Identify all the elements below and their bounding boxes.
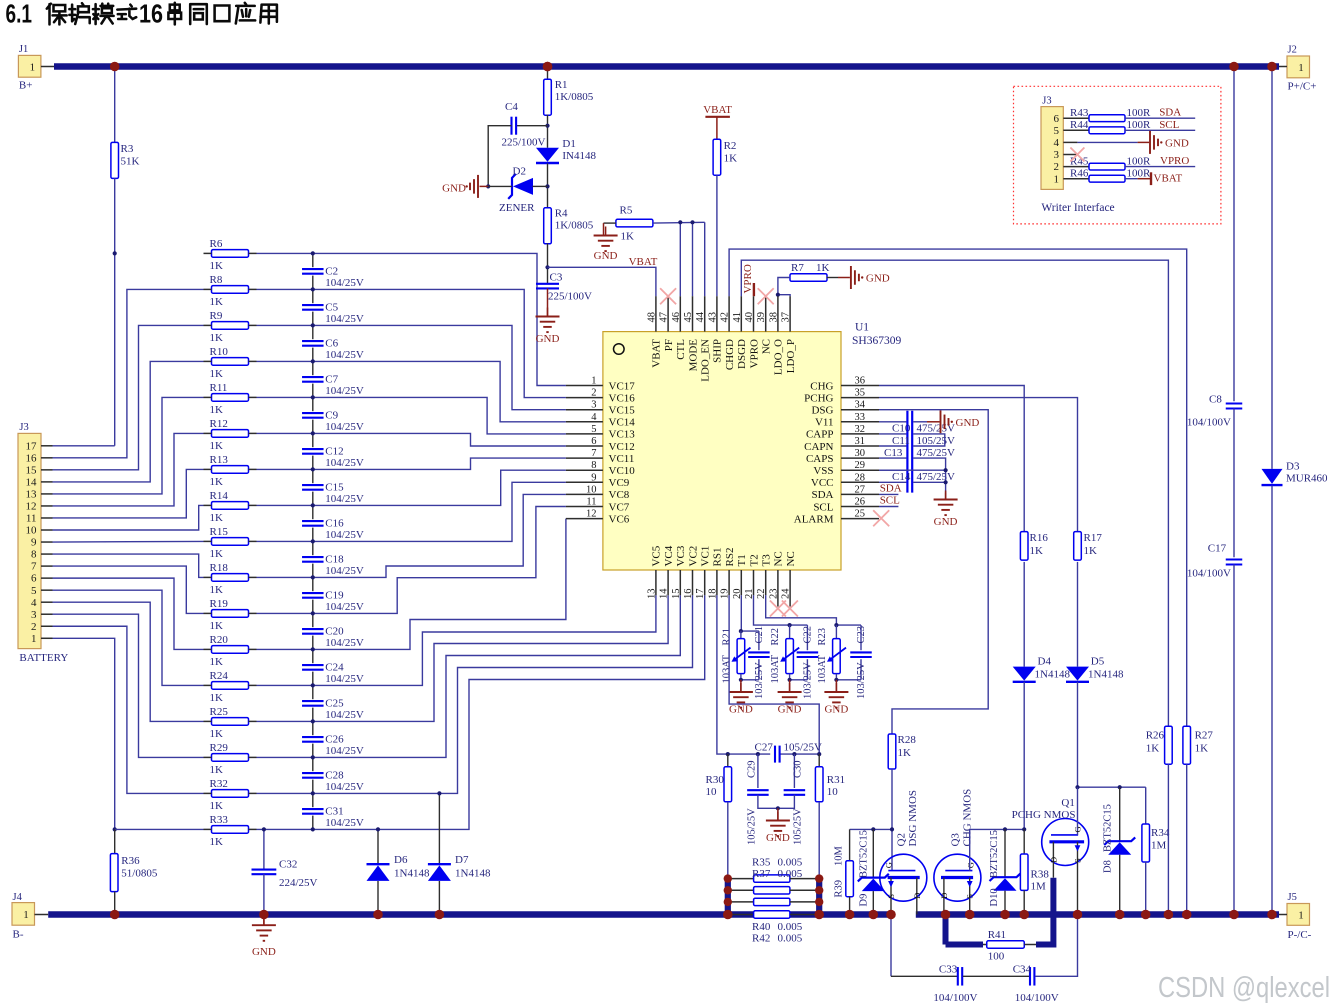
- wire J3 pin 6 stub: [41, 577, 53, 579]
- svg-text:C21: C21: [754, 626, 765, 644]
- svg-text:14: 14: [659, 588, 670, 599]
- capacitor C33 104/100V: [891, 975, 957, 977]
- wire R25 to IC: [257, 595, 669, 721]
- svg-text:C27: C27: [755, 742, 774, 754]
- svg-text:GND: GND: [934, 516, 958, 528]
- wire cap column vertical: [312, 253, 314, 829]
- pin 18 RS1 stub: [716, 570, 718, 595]
- svg-text:T2: T2: [748, 554, 760, 566]
- svg-text:103AT: 103AT: [721, 654, 732, 683]
- wire R9 to IC: [257, 325, 566, 409]
- junction sense bar left: [724, 898, 732, 906]
- svg-text:SCL: SCL: [813, 501, 833, 513]
- pin 47 PF stub: [667, 296, 669, 331]
- pin 21 T2 stub: [753, 570, 755, 595]
- svg-text:GND: GND: [252, 946, 276, 958]
- capacitor C26 104/25V: [301, 735, 324, 743]
- resistor R17 1K: [1074, 532, 1082, 561]
- svg-text:103AT: 103AT: [770, 654, 781, 683]
- capacitor C5 104/25V: [301, 303, 324, 311]
- junction cap column row R13: [311, 467, 315, 471]
- svg-text:48: 48: [646, 312, 657, 323]
- svg-text:104/25V: 104/25V: [325, 601, 364, 613]
- resistor R4 1K/0805: [544, 208, 552, 244]
- svg-text:R40: R40: [752, 921, 771, 933]
- svg-text:PF: PF: [663, 339, 675, 351]
- junction node row1: [113, 251, 117, 255]
- junction cap column row R8: [311, 287, 315, 291]
- svg-text:100R: 100R: [1127, 119, 1152, 131]
- wire bold R41 to Q1 drain: [1036, 942, 1053, 948]
- wire row R18 left stub: [204, 576, 212, 578]
- junction D2 anode node: [545, 184, 549, 188]
- pin 48 VBAT stub: [655, 296, 657, 331]
- svg-text:Writer Interface: Writer Interface: [1041, 202, 1114, 214]
- pin 46 CTL stub: [679, 296, 681, 331]
- svg-text:104/25V: 104/25V: [325, 565, 364, 577]
- svg-text:PCHG: PCHG: [804, 392, 833, 404]
- wire J3 pin 10 stub: [41, 529, 53, 531]
- svg-text:Q1: Q1: [1061, 797, 1074, 809]
- resistor R16 1K: [1020, 532, 1028, 561]
- svg-text:5: 5: [591, 424, 596, 435]
- svg-text:R6: R6: [210, 238, 223, 250]
- svg-text:R7: R7: [791, 262, 804, 274]
- svg-text:12: 12: [586, 509, 597, 520]
- wire C3 to GND: [547, 288, 549, 316]
- junction bottom bus x=263.9: [259, 910, 269, 920]
- svg-text:R15: R15: [210, 526, 229, 538]
- resistor R11 1K: [212, 394, 249, 402]
- svg-text:2: 2: [591, 388, 596, 399]
- wire J3 pin 1 to row 17: [53, 638, 115, 829]
- wire R3 to node row1: [114, 178, 116, 253]
- connector J1 B+: [18, 55, 41, 77]
- wire writer pin4 to GND: [1063, 141, 1077, 143]
- wire R6 to IC: [257, 253, 566, 385]
- wire R44 to net SCL: [1125, 129, 1195, 131]
- wire D1 to D2 node: [547, 163, 549, 208]
- svg-text:1K: 1K: [210, 656, 224, 668]
- svg-text:C5: C5: [325, 302, 338, 314]
- svg-text:R3: R3: [121, 143, 134, 155]
- svg-text:100R: 100R: [1127, 107, 1152, 119]
- wire J3 pin 16 to row 2: [53, 289, 204, 457]
- junction bottom bus x=1272: [1267, 910, 1277, 920]
- wire J3 pin 6 to row 12: [53, 578, 204, 649]
- junction C4/GND/D2 node: [486, 184, 490, 188]
- resistor R31 10: [818, 754, 820, 767]
- svg-text:24: 24: [781, 588, 792, 599]
- svg-text:GND: GND: [956, 417, 980, 429]
- pin 43 SHIP stub: [716, 296, 718, 331]
- svg-text:C30: C30: [793, 760, 804, 778]
- svg-text:VC9: VC9: [609, 477, 630, 489]
- svg-text:NC: NC: [785, 551, 797, 566]
- connector J2 P+/C+: [1287, 56, 1310, 78]
- svg-text:G: G: [883, 862, 893, 868]
- junction sense bar left: [724, 910, 732, 918]
- svg-text:CSDN @qlexcel: CSDN @qlexcel: [1158, 972, 1330, 1004]
- svg-text:1K: 1K: [1084, 545, 1098, 557]
- wire D4 to Q3 gate node: [1023, 682, 1025, 830]
- ground GND below bus at C32: [263, 915, 265, 926]
- svg-text:R35: R35: [752, 857, 771, 869]
- svg-text:104/100V: 104/100V: [1187, 568, 1231, 580]
- svg-text:1: 1: [1298, 62, 1304, 74]
- pin 24 NC stub: [789, 570, 791, 607]
- svg-text:VSS: VSS: [813, 465, 833, 477]
- wire R43 to net SDA: [1125, 117, 1195, 119]
- wire row R6 right stub: [249, 252, 257, 254]
- svg-text:R36: R36: [121, 855, 140, 867]
- wire J3 pin 1 stub: [41, 637, 53, 639]
- svg-text:R24: R24: [210, 670, 229, 682]
- svg-text:C17: C17: [1208, 543, 1227, 555]
- resistor R13 1K: [212, 466, 249, 474]
- svg-text:R16: R16: [1030, 532, 1049, 544]
- svg-text:1K: 1K: [1030, 545, 1044, 557]
- junction sense bar left: [724, 886, 732, 894]
- capacitor group C10 C11 C13 C14 plates: [906, 411, 908, 493]
- svg-text:2: 2: [1054, 161, 1060, 173]
- junction pin38 node: [776, 293, 780, 297]
- svg-text:MODE: MODE: [687, 339, 699, 372]
- svg-text:CAPP: CAPP: [806, 429, 834, 441]
- resistor R43 100R: [1063, 117, 1089, 119]
- junction bottom bus x=439.4: [435, 910, 445, 920]
- junction VCC GND column: [944, 480, 948, 484]
- wire J3 pin 16 stub: [41, 457, 53, 459]
- wire T1 top link: [741, 630, 759, 632]
- svg-text:C33: C33: [939, 964, 958, 976]
- pin 33 V11 stub: [841, 421, 879, 423]
- wire row R15 right stub: [249, 540, 257, 542]
- svg-text:11: 11: [26, 513, 37, 525]
- svg-text:104/25V: 104/25V: [325, 637, 364, 649]
- junction bottom bus x=1077.5: [1073, 910, 1083, 920]
- junction top bus x=114.7: [110, 62, 120, 72]
- svg-text:R5: R5: [620, 205, 633, 217]
- svg-text:6: 6: [591, 436, 596, 447]
- svg-text:VC16: VC16: [609, 392, 636, 404]
- svg-text:D9: D9: [859, 894, 870, 907]
- wire R46 to VBAT bar: [1125, 178, 1138, 180]
- wire row R18 right stub: [249, 576, 257, 578]
- svg-text:CAPN: CAPN: [804, 441, 833, 453]
- svg-text:38: 38: [768, 312, 779, 323]
- svg-text:D5: D5: [1091, 656, 1105, 668]
- wire R7 right to GND: [827, 277, 838, 279]
- svg-text:C4: C4: [505, 101, 518, 113]
- svg-text:DSG NMOS: DSG NMOS: [907, 790, 919, 847]
- junction sense bar right: [815, 886, 823, 894]
- junction bottom bus x=969.7: [965, 910, 975, 920]
- pin 29 VSS stub: [841, 469, 879, 471]
- capacitor C7 104/25V: [301, 375, 324, 383]
- wire row R15 left stub: [204, 540, 212, 542]
- wire row R9 right stub: [249, 324, 257, 326]
- ground GND below R21: [740, 680, 742, 692]
- svg-text:R26: R26: [1146, 730, 1165, 742]
- capacitor C12 104/25V: [301, 447, 324, 455]
- svg-text:C8: C8: [1209, 394, 1222, 406]
- wire SDA pin27: [879, 493, 898, 495]
- pin 35 PCHG stub: [841, 397, 879, 399]
- svg-text:35: 35: [855, 388, 866, 399]
- wire row R29 right stub: [249, 756, 257, 758]
- svg-text:D: D: [912, 893, 922, 899]
- ground GND below R5: [605, 227, 607, 236]
- pin 1 VC17 stub: [566, 385, 603, 387]
- resistor R37 0.005: [728, 889, 754, 891]
- capacitor C23 103/25V: [860, 625, 862, 650]
- svg-text:CHGD: CHGD: [724, 339, 736, 370]
- resistor R30 10: [727, 754, 729, 767]
- svg-text:1: 1: [1054, 173, 1060, 185]
- svg-text:C22: C22: [803, 626, 814, 644]
- wire CHGD pin42 to R27 column: [729, 249, 1187, 726]
- wire R30 to sense bar: [727, 802, 729, 879]
- svg-text:R23: R23: [817, 628, 828, 646]
- svg-text:224/25V: 224/25V: [279, 877, 318, 889]
- wire Q3 gate up to node: [969, 829, 971, 870]
- svg-text:8: 8: [31, 549, 37, 561]
- svg-text:37: 37: [781, 312, 792, 323]
- capacitor C24 104/25V: [301, 663, 324, 671]
- svg-text:104/25V: 104/25V: [325, 277, 364, 289]
- junction C29 top: [756, 752, 760, 756]
- zener D2 ZENER: [508, 174, 516, 199]
- svg-text:10: 10: [26, 525, 38, 537]
- svg-text:LDO_P: LDO_P: [785, 339, 797, 373]
- svg-text:R46: R46: [1070, 168, 1089, 180]
- svg-text:J3: J3: [1042, 96, 1051, 107]
- wire R2 to pin43 SHIP: [716, 175, 718, 296]
- wire J5 stub: [1279, 914, 1287, 916]
- svg-text:13: 13: [646, 589, 657, 600]
- wire V11 row to GND: [913, 421, 927, 423]
- wire J3 pin 12 stub: [41, 505, 53, 507]
- pin 39 NC stub: [765, 296, 767, 331]
- capacitor C19 104/25V: [301, 591, 324, 599]
- svg-text:S: S: [1073, 858, 1083, 863]
- svg-text:0.005: 0.005: [778, 868, 803, 880]
- svg-text:475/25V: 475/25V: [917, 471, 956, 483]
- svg-text:1K: 1K: [210, 836, 224, 848]
- svg-text:B+: B+: [19, 80, 33, 92]
- wire J3 pin 10 to row 8: [53, 505, 204, 530]
- resistor R39 10M: [849, 829, 851, 860]
- wire row R33 left stub: [204, 828, 212, 830]
- thermistor R22 103AT: [789, 625, 791, 638]
- pin 41 DSGD stub: [740, 296, 742, 331]
- svg-text:IN4148: IN4148: [562, 150, 596, 162]
- pin 38 LDO_O stub: [777, 296, 779, 331]
- wire writer pin3 stub: [1063, 154, 1077, 156]
- svg-text:J4: J4: [13, 892, 23, 903]
- ground GND below R22: [789, 680, 791, 692]
- pin 12 VC6 stub: [566, 518, 603, 520]
- wire R8 to IC: [257, 289, 566, 397]
- pin 9 VC9 stub: [566, 481, 603, 483]
- svg-text:25: 25: [855, 509, 866, 520]
- wire J3 pin 3 to row 15: [53, 614, 204, 757]
- wire Q2 source below bus to C33 row: [890, 918, 892, 977]
- junction bottom bus x=114.7: [110, 910, 120, 920]
- capacitor C30 105/25V: [793, 754, 795, 788]
- pin 45 MODE stub: [692, 296, 694, 331]
- wire J3 pin 13 to row 5: [53, 397, 204, 494]
- svg-text:23: 23: [768, 589, 779, 600]
- svg-text:1K: 1K: [816, 262, 830, 274]
- wire J3 pin 11 stub: [41, 517, 53, 519]
- svg-text:R20: R20: [210, 634, 229, 646]
- wire PCHG pin35 to R17: [879, 398, 1078, 532]
- svg-text:VC4: VC4: [663, 545, 675, 566]
- wire SCL pin26: [879, 506, 898, 508]
- svg-text:C16: C16: [325, 518, 344, 530]
- svg-text:1K: 1K: [210, 620, 224, 632]
- wire row R8 left stub: [204, 288, 212, 290]
- junction sense bar left: [724, 874, 732, 882]
- svg-text:1K: 1K: [210, 512, 224, 524]
- wire R12 to IC: [257, 433, 566, 446]
- svg-text:100: 100: [988, 951, 1005, 963]
- svg-text:45: 45: [683, 312, 694, 323]
- pin 13 VC5 stub: [655, 570, 657, 595]
- wire J3 pin 17 stub: [41, 445, 53, 447]
- svg-text:2: 2: [31, 621, 37, 633]
- pin 6 VC12 stub: [566, 445, 603, 447]
- diode D7 1N4148: [438, 793, 440, 864]
- svg-text:J5: J5: [1288, 892, 1297, 903]
- wire R7 left to pins 38 37: [778, 278, 791, 297]
- svg-text:104/25V: 104/25V: [325, 313, 364, 325]
- svg-text:R21: R21: [721, 628, 732, 646]
- wire R45 to net VPRO: [1125, 166, 1195, 168]
- svg-text:D6: D6: [394, 854, 408, 866]
- ground GND left of D2: [480, 185, 489, 187]
- wire C34 to Q1 source column: [1035, 918, 1078, 977]
- svg-text:SHIP: SHIP: [712, 339, 724, 363]
- svg-text:CTL: CTL: [675, 339, 687, 360]
- svg-text:R28: R28: [898, 734, 917, 746]
- svg-text:VC17: VC17: [609, 380, 636, 392]
- wire row R11 left stub: [204, 396, 212, 398]
- pin 26 SCL stub: [841, 506, 879, 508]
- resistor R45 100R: [1063, 166, 1089, 168]
- junction bottom bus x=891: [886, 910, 896, 920]
- junction cap column row R25: [311, 719, 315, 723]
- pin 8 VC10 stub: [566, 469, 603, 471]
- svg-text:1K: 1K: [898, 747, 912, 759]
- wire row R24 right stub: [249, 684, 257, 686]
- resistor R33 1K: [212, 826, 249, 834]
- svg-text:R32: R32: [210, 778, 228, 790]
- pin 14 VC4 stub: [667, 570, 669, 595]
- wire C4 branch: [516, 125, 547, 127]
- capacitor C29 105/25V: [757, 754, 759, 788]
- wire top bus B+ rail: [54, 63, 1279, 70]
- wire D3 column lower: [1271, 486, 1273, 915]
- junction bottom bus x=1024.2: [1019, 910, 1029, 920]
- svg-text:RS2: RS2: [724, 548, 736, 567]
- capacitor C16 104/25V: [301, 519, 324, 527]
- svg-text:VBAT: VBAT: [703, 104, 732, 116]
- wire D3 column upper: [1271, 67, 1273, 469]
- resistor R3 51K: [111, 142, 119, 178]
- svg-text:1: 1: [1298, 909, 1304, 921]
- svg-text:40: 40: [744, 312, 755, 323]
- thermistor R21 103AT: [740, 631, 742, 638]
- svg-text:T1: T1: [736, 554, 748, 566]
- wire row R12 left stub: [204, 432, 212, 434]
- svg-text:D3: D3: [1286, 461, 1300, 473]
- svg-text:C14: C14: [892, 471, 911, 483]
- capacitor C21 103/25V: [758, 631, 760, 650]
- svg-text:6.1: 6.1: [6, 0, 33, 29]
- svg-text:104/25V: 104/25V: [325, 781, 364, 793]
- junction bottom bus x=378: [373, 910, 383, 920]
- transistor Q3 CHG NMOS: [934, 854, 981, 901]
- svg-text:VCC: VCC: [811, 477, 834, 489]
- wire DSGD pin41 to R26 column: [741, 260, 1168, 726]
- wire sense right bar: [816, 879, 822, 915]
- svg-text:1K: 1K: [210, 476, 224, 488]
- svg-text:1K: 1K: [210, 548, 224, 560]
- svg-text:104/25V: 104/25V: [325, 709, 364, 721]
- junction bus at R1: [543, 62, 553, 72]
- junction bottom bus x=819.2: [814, 910, 824, 920]
- junction Q2 gate node: [890, 827, 894, 831]
- svg-text:R10: R10: [210, 346, 229, 358]
- resistor R7 1K: [790, 274, 827, 282]
- capacitor C2 104/25V: [301, 267, 324, 275]
- svg-text:15: 15: [671, 589, 682, 600]
- no-connect writer pin3: [1070, 148, 1084, 162]
- svg-text:C28: C28: [325, 770, 344, 782]
- wire row R32 left stub: [204, 792, 212, 794]
- wire row R6 left stub: [204, 252, 212, 254]
- wire R10 to IC: [257, 361, 566, 421]
- svg-text:104/25V: 104/25V: [325, 493, 364, 505]
- svg-text:8: 8: [591, 460, 596, 471]
- resistor R15 1K: [212, 538, 249, 546]
- wire D5 to Q1 gate node: [1077, 682, 1079, 787]
- wire J1 stub: [41, 66, 54, 68]
- wire R15 to IC: [257, 482, 566, 541]
- pin 25 ALARM stub: [841, 518, 879, 520]
- resistor R42 0.005 on bus: [728, 914, 754, 916]
- capacitor C25 104/25V: [301, 699, 324, 707]
- svg-text:3: 3: [591, 400, 596, 411]
- svg-text:105/25V: 105/25V: [784, 742, 823, 754]
- capacitor C8 104/100V: [1226, 402, 1243, 404]
- svg-text:1K: 1K: [210, 260, 224, 272]
- wire C14 row right to GND column: [913, 481, 945, 483]
- svg-text:CHG: CHG: [810, 380, 833, 392]
- junction top bus x=547.5: [543, 62, 553, 72]
- svg-text:1K: 1K: [210, 692, 224, 704]
- junction C30 top: [792, 752, 796, 756]
- pin 19 RS2 stub: [728, 570, 730, 595]
- resistor R6 1K: [212, 250, 249, 258]
- wire R33 to IC: [257, 595, 705, 829]
- wire J3 pin 11 to row 7: [53, 469, 204, 518]
- svg-text:C11: C11: [892, 435, 910, 447]
- junction D9 top: [871, 827, 875, 831]
